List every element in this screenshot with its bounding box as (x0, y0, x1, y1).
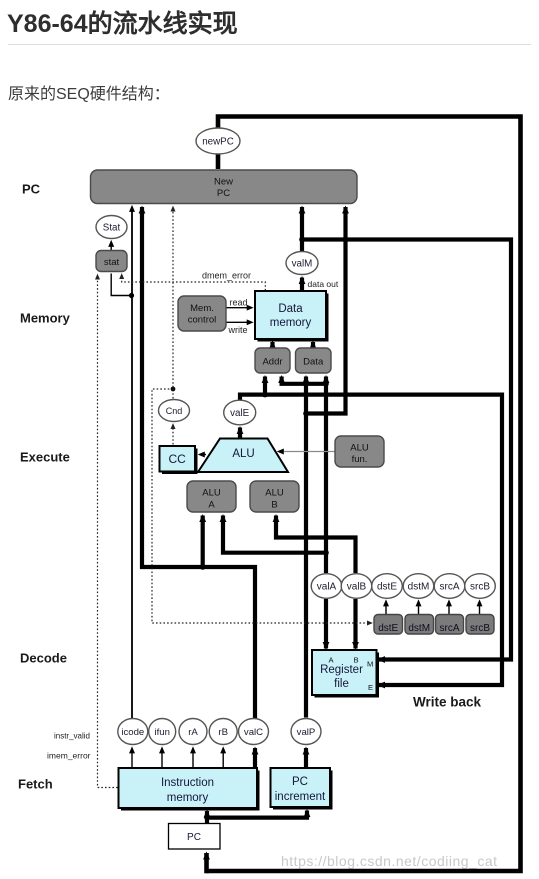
svg-text:dstE: dstE (378, 623, 398, 634)
svg-text:ALU: ALU (202, 488, 221, 499)
svg-text:PC: PC (292, 776, 308, 788)
svg-text:ALU: ALU (265, 488, 284, 499)
svg-text:PC: PC (22, 182, 41, 197)
svg-text:srcB: srcB (470, 623, 490, 634)
svg-text:ALU: ALU (350, 443, 369, 454)
svg-text:ifun: ifun (154, 727, 169, 738)
svg-text:valB: valB (347, 582, 367, 593)
svg-text:dstM: dstM (408, 623, 430, 634)
svg-text:A: A (208, 500, 215, 511)
svg-text:Addr: Addr (262, 356, 282, 367)
svg-text:memory: memory (270, 317, 312, 329)
svg-text:memory: memory (167, 792, 209, 804)
svg-text:dstE: dstE (377, 582, 397, 593)
svg-text:Data: Data (278, 303, 303, 315)
svg-text:Execute: Execute (20, 450, 70, 465)
svg-text:Cnd: Cnd (166, 406, 183, 416)
svg-text:imem_error: imem_error (47, 751, 91, 761)
svg-text:instr_valid: instr_valid (54, 732, 90, 741)
svg-text:fun.: fun. (352, 454, 368, 465)
svg-text:valC: valC (244, 727, 263, 738)
svg-text:Register: Register (320, 664, 363, 676)
svg-text:Decode: Decode (20, 651, 67, 666)
svg-text:B: B (354, 656, 359, 665)
svg-text:dmem_error: dmem_error (202, 271, 251, 281)
svg-text:icode: icode (121, 727, 144, 738)
svg-text:dstM: dstM (408, 582, 430, 593)
svg-text:Write back: Write back (413, 695, 482, 710)
svg-text:increment: increment (275, 791, 326, 803)
svg-text:M: M (367, 660, 373, 669)
svg-text:srcB: srcB (470, 582, 490, 593)
svg-text:rB: rB (218, 727, 228, 738)
svg-text:data out: data out (308, 279, 339, 289)
svg-text:control: control (188, 315, 217, 326)
svg-text:newPC: newPC (202, 137, 234, 148)
svg-text:rA: rA (188, 727, 198, 738)
svg-text:Mem.: Mem. (190, 303, 214, 314)
svg-text:E: E (368, 683, 373, 692)
svg-text:Memory: Memory (20, 311, 71, 326)
svg-text:stat: stat (104, 257, 120, 268)
svg-text:Instruction: Instruction (161, 777, 214, 789)
svg-text:file: file (334, 678, 349, 690)
svg-text:PC: PC (187, 832, 201, 843)
svg-text:write: write (228, 325, 248, 335)
svg-text:valA: valA (317, 582, 337, 593)
svg-text:valM: valM (292, 259, 313, 270)
svg-text:ALU: ALU (232, 448, 254, 460)
svg-text:srcA: srcA (440, 582, 460, 593)
svg-text:srcA: srcA (440, 623, 460, 634)
svg-text:valE: valE (230, 408, 250, 419)
svg-text:read: read (230, 298, 248, 308)
svg-text:Data: Data (303, 356, 324, 367)
svg-text:CC: CC (169, 452, 187, 466)
svg-text:Stat: Stat (103, 223, 121, 234)
svg-text:valP: valP (297, 727, 316, 738)
svg-text:Fetch: Fetch (18, 777, 53, 792)
svg-text:New: New (214, 177, 233, 188)
svg-text:B: B (271, 500, 277, 511)
svg-text:PC: PC (217, 188, 230, 199)
